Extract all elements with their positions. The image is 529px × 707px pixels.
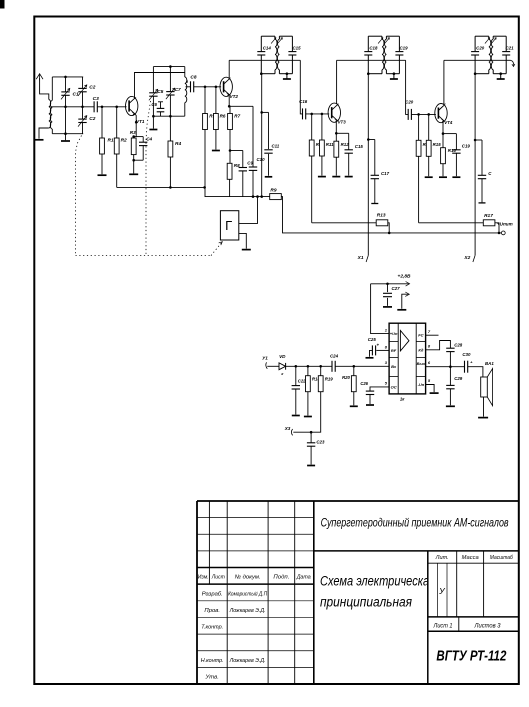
svg-text:C10: C10 bbox=[257, 157, 266, 162]
svg-text:X2: X2 bbox=[463, 255, 470, 261]
svg-text:C9: C9 bbox=[247, 161, 253, 166]
svg-text:Г: Г bbox=[225, 218, 232, 233]
svg-text:C21: C21 bbox=[505, 46, 514, 51]
svg-text:Дата: Дата bbox=[296, 575, 312, 581]
svg-text:C2: C2 bbox=[89, 116, 95, 122]
svg-text:C7: C7 bbox=[175, 87, 181, 93]
svg-text:C17: C17 bbox=[381, 171, 390, 176]
svg-text:C25: C25 bbox=[368, 337, 377, 342]
svg-text:Схема электрическая: Схема электрическая bbox=[320, 574, 435, 589]
svg-text:Вх: Вх bbox=[391, 364, 397, 369]
svg-text:R3: R3 bbox=[130, 130, 136, 135]
svg-text:Лист 1: Лист 1 bbox=[433, 622, 453, 629]
svg-text:C5: C5 bbox=[157, 89, 163, 95]
svg-text:+Uпит: +Uпит bbox=[497, 222, 513, 227]
svg-text:VD: VD bbox=[279, 354, 286, 359]
svg-text:ВГТУ РТ-112: ВГТУ РТ-112 bbox=[436, 647, 506, 664]
svg-text:C11: C11 bbox=[272, 144, 280, 149]
svg-text:Утв.: Утв. bbox=[205, 674, 219, 680]
svg-text:Масса: Масса bbox=[462, 555, 479, 561]
svg-text:C26: C26 bbox=[360, 381, 368, 386]
svg-text:C8: C8 bbox=[190, 75, 196, 81]
svg-text:Листов 3: Листов 3 bbox=[474, 622, 501, 629]
svg-text:C1: C1 bbox=[73, 92, 79, 98]
svg-text:C16: C16 bbox=[299, 99, 308, 104]
svg-text:Вых: Вых bbox=[417, 361, 426, 366]
svg-text:VT2: VT2 bbox=[230, 94, 239, 99]
svg-text:Ложкарев Э.Д.: Ложкарев Э.Д. bbox=[229, 658, 266, 664]
svg-text:C19: C19 bbox=[462, 144, 471, 149]
svg-text:C3: C3 bbox=[93, 96, 99, 102]
svg-text:C30: C30 bbox=[462, 352, 471, 357]
svg-text:+2,8В: +2,8В bbox=[398, 274, 411, 280]
svg-text:R7: R7 bbox=[234, 114, 240, 119]
svg-text:C20: C20 bbox=[405, 99, 414, 104]
svg-text:R19: R19 bbox=[325, 377, 334, 382]
svg-text:R16: R16 bbox=[448, 148, 457, 153]
svg-text:C27: C27 bbox=[392, 286, 401, 291]
svg-text:X3: X3 bbox=[284, 426, 291, 431]
svg-text:VT4: VT4 bbox=[444, 120, 453, 125]
svg-text:Подп.: Подп. bbox=[273, 575, 289, 581]
svg-text:C28: C28 bbox=[454, 343, 463, 348]
svg-text:C6: C6 bbox=[151, 102, 157, 107]
svg-text:C4: C4 bbox=[146, 137, 152, 142]
svg-text:C15: C15 bbox=[355, 144, 364, 149]
svg-text:R6: R6 bbox=[220, 114, 226, 119]
svg-text:Ложкарев Э.Д.: Ложкарев Э.Д. bbox=[229, 608, 266, 614]
svg-text:Лист: Лист bbox=[211, 575, 225, 581]
svg-text:R12: R12 bbox=[341, 142, 350, 147]
svg-text:R1: R1 bbox=[108, 138, 114, 144]
svg-text:Изм.: Изм. bbox=[198, 575, 209, 581]
svg-text:Пров.: Пров. bbox=[204, 608, 220, 614]
svg-text:Супергетеродинный приемник АМ-: Супергетеродинный приемник АМ-сигналов bbox=[321, 516, 509, 530]
svg-text:C29: C29 bbox=[454, 376, 463, 381]
svg-text:Лит.: Лит. bbox=[435, 555, 449, 561]
svg-text:принципиальная: принципиальная bbox=[320, 595, 412, 610]
svg-text:R4: R4 bbox=[175, 141, 181, 147]
svg-text:R13: R13 bbox=[377, 212, 386, 218]
svg-text:+: + bbox=[377, 343, 380, 348]
svg-text:Т.контр.: Т.контр. bbox=[201, 625, 223, 631]
svg-text:C19: C19 bbox=[399, 46, 408, 51]
svg-text:R11: R11 bbox=[326, 142, 334, 147]
svg-text:R20: R20 bbox=[342, 375, 351, 380]
svg-text:№ докум.: № докум. bbox=[235, 574, 261, 581]
svg-text:R2: R2 bbox=[121, 138, 127, 144]
svg-text:R15: R15 bbox=[433, 142, 442, 147]
svg-text:-Un: -Un bbox=[418, 382, 425, 387]
svg-text:C14: C14 bbox=[263, 46, 272, 51]
svg-text:C23: C23 bbox=[316, 440, 325, 445]
svg-text:C20: C20 bbox=[476, 46, 485, 51]
svg-text:VT1: VT1 bbox=[136, 119, 145, 124]
svg-text:BA1: BA1 bbox=[485, 361, 494, 366]
svg-text:C18: C18 bbox=[369, 46, 378, 51]
svg-text:ОС: ОС bbox=[391, 384, 397, 389]
svg-text:RF: RF bbox=[391, 348, 397, 353]
svg-text:R17: R17 bbox=[484, 213, 493, 219]
svg-text:Масштаб: Масштаб bbox=[490, 555, 514, 561]
svg-text:R9: R9 bbox=[270, 188, 276, 194]
svg-text:У1: У1 bbox=[262, 356, 268, 361]
svg-text:C24: C24 bbox=[330, 354, 339, 359]
svg-text:+Un: +Un bbox=[390, 331, 398, 336]
svg-text:C2: C2 bbox=[89, 85, 95, 91]
svg-text:VT3: VT3 bbox=[338, 120, 347, 125]
svg-text:FC: FC bbox=[418, 333, 423, 338]
svg-text:Кд: Кд bbox=[418, 348, 423, 353]
svg-text:C22: C22 bbox=[298, 378, 306, 383]
svg-text:X1: X1 bbox=[357, 255, 364, 261]
svg-text:Разраб.: Разраб. bbox=[202, 591, 223, 597]
svg-text:Комаристый Д.П: Комаристый Д.П bbox=[228, 590, 268, 597]
svg-text:Н.контр.: Н.контр. bbox=[201, 658, 224, 664]
svg-text:C15: C15 bbox=[292, 46, 301, 51]
